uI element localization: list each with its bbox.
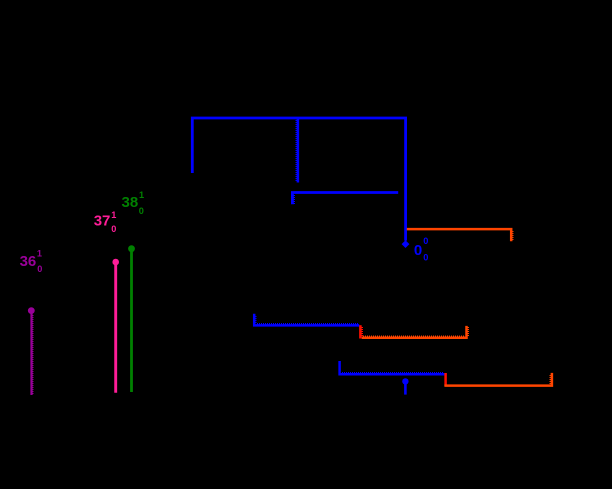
svg-text:0: 0 [139,206,144,216]
svg-text:0: 0 [111,224,116,234]
svg-text:37: 37 [94,212,111,229]
svg-text:0: 0 [423,236,428,246]
svg-text:1: 1 [111,210,116,220]
svg-text:38: 38 [122,194,139,211]
svg-text:36: 36 [20,253,37,270]
svg-text:1: 1 [139,190,144,200]
svg-text:0: 0 [423,253,428,263]
svg-text:0: 0 [414,242,422,259]
svg-text:1: 1 [37,249,42,259]
svg-text:0: 0 [37,264,42,274]
